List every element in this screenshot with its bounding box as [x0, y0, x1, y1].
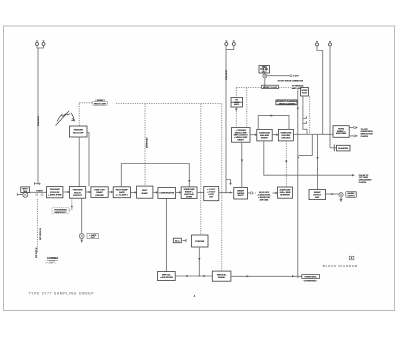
arrow below hf sync — [235, 107, 237, 110]
box sweep mixed blanking amplifier — [333, 126, 349, 138]
svg-text:CIRCUIT: CIRCUIT — [73, 195, 83, 197]
box lockout — [204, 187, 219, 201]
box trigger circuit (middle row) — [232, 128, 251, 143]
box trigger takeoff amplifier — [47, 187, 63, 198]
box horiz output (middle) — [278, 129, 293, 141]
svg-text:+ MIXED BLANKING: + MIXED BLANKING — [277, 102, 296, 105]
svg-text:TRIGGER: TRIGGER — [50, 189, 60, 191]
wire from middle holdoff down then right (unblanking) — [264, 141, 353, 175]
svg-text:STROBE: STROBE — [195, 241, 205, 243]
wire stub right of holdoff box down — [87, 133, 89, 187]
bottom bus wire right — [231, 275, 302, 277]
svg-text:RAMP: RAMP — [142, 192, 149, 195]
box feedback — [278, 187, 293, 198]
svg-text:PLATES: PLATES — [361, 135, 369, 138]
box hf sync (stacked, top of trigger chain) — [231, 98, 243, 108]
connector trig out — [79, 234, 84, 243]
wire elbow from mixer line down joining vertical — [299, 134, 313, 155]
wire trigger circuit down to gating — [241, 142, 243, 187]
wire from J3 jog down — [317, 46, 323, 134]
svg-text:RAMP: RAMP — [96, 191, 103, 194]
dashed safety wire right — [279, 87, 292, 89]
svg-text:AMPL: AMPL — [234, 103, 240, 106]
arrow to time/div — [86, 191, 90, 193]
svg-text:SWP CAL: SWP CAL — [162, 273, 172, 276]
label safety loop — [262, 85, 279, 89]
wire long vertical right column — [297, 90, 299, 279]
connector J4 — [329, 41, 332, 46]
svg-text:SHOWN: SHOWN — [49, 260, 56, 262]
box sweep holdoff (middle) — [257, 129, 272, 141]
box input trig (far left) — [21, 187, 30, 193]
box comparator — [158, 188, 176, 199]
svg-text:SAFETY LOOP: SAFETY LOOP — [263, 86, 278, 89]
svg-text:BLANKING: BLANKING — [338, 147, 349, 150]
dashed wire holding circuit down to feedback box — [285, 141, 287, 187]
bottom bus wire left — [175, 275, 212, 277]
svg-text:EXT SWP IN: EXT SWP IN — [36, 247, 38, 258]
dashed link from label — [69, 209, 74, 210]
label connex (bottom left) — [46, 256, 59, 264]
svg-text:COMPARATOR: COMPARATOR — [159, 192, 174, 195]
svg-text:HOLD-OFF: HOLD-OFF — [73, 132, 84, 134]
svg-text:( + CLAMP ): ( + CLAMP ) — [116, 194, 128, 197]
arrow on loop right leg — [188, 180, 190, 183]
connector J3 (real time input) — [316, 41, 319, 46]
handwritten note — [56, 111, 75, 126]
wire from connector to right output — [267, 75, 290, 77]
wire to sweep out connector — [326, 193, 339, 195]
branch stub to sweep gating multi — [226, 180, 231, 184]
wire middle row to blanking amp — [293, 133, 333, 135]
arrowhead on vertical — [297, 108, 299, 111]
connector J2 (pair, top middle) — [225, 41, 236, 50]
svg-text:BLOCK DIAGRAM: BLOCK DIAGRAM — [323, 264, 358, 268]
svg-text:TIME / DIV: TIME / DIV — [94, 190, 105, 192]
svg-text:DRIVER: DRIVER — [95, 195, 104, 197]
svg-text:GATE: GATE — [119, 191, 125, 194]
svg-text:DOWN: DOWN — [186, 196, 193, 198]
svg-text:CONNEX: CONNEX — [47, 256, 58, 260]
arrow into feedback box — [273, 192, 277, 194]
wire lockout to gating with junction — [219, 192, 233, 194]
dashed wire from annotation line to fast ramp — [144, 104, 146, 187]
svg-text:AMP: AMP — [315, 196, 320, 199]
wire gating to holdoff label — [248, 192, 251, 194]
svg-text:AMPLIFIER: AMPLIFIER — [336, 132, 347, 135]
svg-text:EXT HORIZ IN: EXT HORIZ IN — [40, 227, 42, 240]
box sweep cal — [158, 272, 176, 281]
svg-text:PLUG: PLUG — [302, 93, 308, 95]
svg-text:SWEEP MAG: SWEEP MAG — [146, 137, 149, 148]
dashed safety wire — [236, 87, 261, 89]
svg-text:HORIZONTAL: HORIZONTAL — [305, 276, 318, 279]
arrow to ramp gen — [108, 191, 112, 193]
svg-text:INVERT: INVERT — [261, 137, 269, 139]
svg-text:TRIG'D LIGHT: TRIG'D LIGHT — [94, 103, 107, 105]
arrow to trigger multi — [63, 191, 69, 193]
node circle out — [290, 75, 292, 77]
svg-text:TRIG INPUT: TRIG INPUT — [226, 69, 228, 80]
box fast ramp — [137, 186, 153, 198]
label holdoff variable — [257, 192, 272, 202]
label sweep trig'd — [93, 100, 108, 106]
arrow to comparator — [153, 191, 157, 193]
svg-text:TRIG INPUT: TRIG INPUT — [38, 115, 40, 126]
blanking takeoff bar — [333, 144, 335, 151]
dashed enclosure right side — [221, 104, 223, 272]
box trigger multi — [69, 187, 85, 199]
box strobe comparator — [192, 235, 209, 247]
loop wire from fast ramp gate top — [121, 164, 189, 187]
label blanking — [337, 145, 351, 151]
svg-text:+ AMPLIFIER: + AMPLIFIER — [48, 194, 62, 197]
box tunnel diode (top) — [259, 66, 270, 74]
dashed trigger sensitivity drop — [71, 198, 73, 209]
label sweep out — [346, 192, 357, 198]
box fast ramp generator — [113, 187, 130, 198]
wire from sync box down with tap steps — [303, 96, 307, 134]
output stubs with node circles — [349, 127, 353, 129]
wire strobe down — [198, 247, 200, 276]
svg-text:PLATES: PLATES — [359, 181, 367, 184]
svg-text:PICKOFF: PICKOFF — [50, 192, 60, 194]
svg-text:FAST: FAST — [142, 189, 148, 192]
svg-text:TRIGGER: TRIGGER — [73, 190, 83, 192]
svg-text:50 µs: 50 µs — [175, 241, 180, 243]
box sweep gating multi — [234, 188, 248, 200]
svg-text:(SW 405): (SW 405) — [260, 198, 269, 201]
label display (bottom right) — [302, 275, 320, 283]
svg-text:VERTICAL: VERTICAL — [217, 273, 227, 276]
svg-text:+ MULTIPLIER: + MULTIPLIER — [160, 277, 173, 279]
connector below input box — [17, 192, 28, 197]
label to crt horizontal — [361, 129, 374, 138]
wire holdoff box down — [78, 137, 80, 187]
box time/div switch — [91, 187, 108, 198]
wire comparator down to cal — [165, 198, 167, 271]
box staircase generator — [181, 187, 197, 199]
svg-text:RESET: RESET — [238, 140, 245, 142]
label trig out — [87, 234, 99, 240]
wire from J4 down to blanking label — [329, 46, 331, 148]
box sweep output amp — [309, 190, 326, 200]
dashes from label left — [79, 102, 92, 104]
wire trigger multi to trig out connector — [81, 198, 83, 233]
svg-text:SENSITIVITY: SENSITIVITY — [54, 212, 67, 214]
arrow to output amp middle — [272, 134, 277, 136]
dashed drop from safety line — [246, 88, 248, 128]
box trigger hold-off — [69, 126, 87, 137]
dashed drop from safety line to hf sync box — [235, 88, 237, 98]
box vertical out — [212, 271, 231, 281]
connector sweep out — [339, 193, 343, 203]
svg-text:FAST RAMP: FAST RAMP — [116, 188, 129, 191]
arrow trigger to sweep holdoff — [250, 134, 256, 136]
svg-text:SIGNAL: SIGNAL — [218, 276, 226, 279]
svg-text:TO EXT TRIG IN CONNECTOR: TO EXT TRIG IN CONNECTOR — [278, 81, 304, 83]
label pulse to crt — [359, 175, 372, 184]
svg-text:MULTI: MULTI — [74, 192, 81, 194]
arrowhead unblanking — [352, 174, 355, 176]
arrow to staircase — [176, 191, 180, 193]
box sync out (small, right of safety) — [301, 88, 309, 97]
wire from J2 down long vertical — [225, 50, 227, 193]
hook arrow into trig'd node — [34, 182, 40, 185]
dashed drop to holdoff box — [78, 104, 80, 127]
wire input to amplifier with trig'd marks — [30, 191, 47, 193]
dashed annotation line (sweep trig'd) — [116, 103, 222, 105]
connector J1 (trig input pair, top left) — [36, 41, 46, 49]
wire from J1 down — [37, 48, 39, 185]
wire stub connector to safety line — [264, 78, 266, 87]
wire to lockout box — [197, 192, 204, 194]
svg-text:INVERTER: INVERTER — [280, 194, 290, 196]
tick marks between — [183, 239, 187, 243]
svg-text:TRIGGER: TRIGGER — [73, 130, 83, 132]
box interdot blanking (flat wide) — [276, 100, 297, 106]
loop wire over middle boxes — [258, 116, 289, 130]
symbol section marker — [349, 256, 354, 260]
svg-text:CIRCUITS: CIRCUITS — [281, 137, 291, 139]
dashed wire to trigger box — [235, 111, 237, 128]
svg-text:O OUT: O OUT — [293, 76, 300, 78]
svg-text:OUT: OUT — [262, 71, 267, 73]
svg-text:TRIG'D: TRIG'D — [36, 190, 43, 192]
arrow on loop top — [271, 114, 274, 116]
arrow to start box — [130, 191, 135, 193]
wire down to sweep output amp — [317, 134, 319, 190]
svg-text:OUTPUT: OUTPUT — [348, 195, 356, 197]
dashed ext line left — [36, 199, 38, 252]
connector below tunnel diode box — [263, 74, 267, 78]
svg-text:MULTI: MULTI — [238, 195, 244, 197]
label triggering sensitivity (dashed box) — [52, 208, 69, 214]
svg-text:TYPE 3T77 SAMPLING SWEEP: TYPE 3T77 SAMPLING SWEEP — [29, 291, 95, 295]
box 50us — [173, 238, 181, 243]
dashed wire from sync box right down — [309, 97, 311, 135]
dashed enclosure left side — [200, 104, 202, 236]
